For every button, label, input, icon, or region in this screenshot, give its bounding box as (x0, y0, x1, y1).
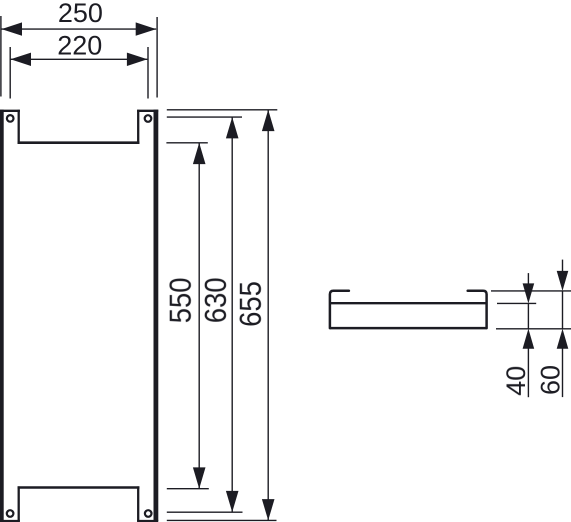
arrow 550 top (193, 143, 206, 164)
svg-text:220: 220 (57, 31, 102, 61)
dimension line 655 (267, 110, 269, 521)
plate left edge (0, 110, 4, 522)
top-left tab top edge (0, 110, 20, 112)
extension line 655 top (167, 109, 277, 111)
top-right tab left edge (137, 110, 139, 144)
channel bar top edge (330, 302, 487, 304)
dimension line 550 (198, 143, 200, 489)
arrow 630 top (226, 117, 239, 138)
extension line 220 right (147, 47, 149, 99)
arrow 220 right (127, 53, 147, 66)
plate top edge (18, 141, 140, 144)
dimension line 250 (2, 28, 157, 30)
arrow 250 left (2, 22, 23, 35)
hole top-right (145, 115, 152, 122)
dimension line 60 upper tail (562, 260, 564, 272)
plate right edge (153, 110, 158, 522)
top-right tab top edge (137, 110, 158, 112)
extension line 550 bottom (167, 488, 209, 490)
arrow 250 right (136, 22, 157, 35)
extension line 550 top (166, 142, 207, 144)
arrow 655 top (262, 110, 275, 131)
arrow 220 left (11, 53, 32, 66)
top-left tab right edge (18, 110, 20, 144)
svg-text:655: 655 (234, 281, 268, 327)
bottom-left tab bottom edge (0, 520, 20, 522)
dimension line 40 upper tail (527, 273, 529, 284)
bottom-right tab left edge (137, 486, 139, 521)
plate bottom edge (18, 486, 140, 489)
dimension line 60 middle (562, 291, 564, 329)
extension line 655 bottom (167, 519, 277, 521)
svg-text:250: 250 (58, 0, 103, 28)
extension line 250 left (0, 16, 2, 97)
extension line 630 top (167, 116, 242, 118)
arrow 40 bottom (up) (523, 329, 535, 349)
channel bar bottom edge (330, 327, 487, 330)
arrow 60 top (down) (557, 271, 569, 291)
arrow 630 bottom (226, 491, 239, 512)
extension line 630 bottom (167, 511, 243, 513)
channel left lip and left outer edge (330, 291, 349, 328)
dimension line 220 (11, 58, 148, 60)
hole bottom-right (145, 510, 152, 517)
dimension line 40 middle (527, 303, 529, 328)
extension line 40 top (497, 302, 536, 304)
arrow 40 top (down) (523, 283, 535, 303)
svg-text:40: 40 (501, 366, 531, 396)
hole top-left (7, 115, 14, 122)
extension line 40/60 bottom (496, 328, 571, 330)
dimension line 630 (231, 117, 233, 512)
arrow 550 bottom (193, 467, 206, 488)
hole bottom-left (7, 510, 14, 517)
extension line 60 top (491, 290, 571, 292)
dimension line 40 lower tail (527, 348, 529, 398)
svg-text:630: 630 (200, 277, 234, 323)
dimension line 60 lower tail (562, 348, 564, 398)
extension line 220 left (9, 47, 11, 99)
svg-text:60: 60 (535, 365, 565, 395)
bottom-left tab right edge (18, 486, 20, 521)
extension line 250 right (156, 17, 158, 98)
channel right lip and right outer edge (468, 291, 487, 328)
svg-text:550: 550 (164, 277, 198, 323)
arrow 655 bottom (262, 499, 275, 520)
arrow 60 bottom (up) (557, 329, 569, 349)
bottom-right tab bottom edge (137, 520, 158, 522)
